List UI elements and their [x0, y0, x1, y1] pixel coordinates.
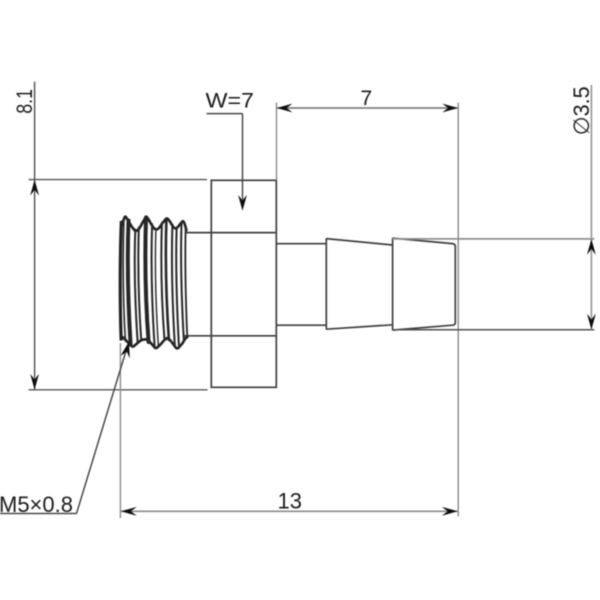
extension line bottom left: [29, 389, 208, 391]
svg-text:13: 13: [278, 488, 302, 513]
arrow W=7 down: [238, 195, 247, 211]
thread left edge: [120, 221, 121, 341]
extension line right x458: [457, 103, 459, 517]
barb stem: [276, 244, 326, 326]
arrow 7 right: [442, 104, 458, 113]
arrow 8.1 up: [30, 180, 39, 196]
svg-text:M5×0.8: M5×0.8: [0, 492, 73, 517]
dimension line dia 3.5 vertical: [590, 85, 592, 330]
arrow M5x0.8: [121, 342, 130, 359]
dimension line 13: [120, 510, 458, 512]
thread top crest: [121, 217, 186, 232]
leader W=7 underline: [207, 113, 243, 115]
barb 2: [393, 238, 456, 331]
svg-text:8.1: 8.1: [12, 89, 37, 114]
arrow dia3.5 up: [587, 239, 596, 255]
extension line barb bottom: [393, 329, 595, 331]
extension line 7 left (hex right): [276, 103, 278, 180]
thread bottom crest: [121, 336, 188, 348]
barb 1: [326, 238, 392, 329]
leader M5x0.8 line: [77, 346, 128, 514]
leader M5x0.8 underline: [0, 513, 77, 515]
extension line barb top: [393, 238, 595, 240]
extension line hex top left: [29, 179, 208, 181]
hex body: [183, 180, 276, 387]
svg-text:∅3.5: ∅3.5: [569, 86, 594, 135]
dimension line 8.1 vertical: [34, 82, 36, 390]
arrow 7 left: [277, 104, 293, 113]
leader W=7 vertical: [242, 114, 244, 205]
thread flank strokes: [123, 218, 187, 348]
arrow dia3.5 down: [587, 314, 596, 330]
extension line 13 left: [119, 343, 121, 518]
arrow 8.1 down: [30, 374, 39, 390]
arrow 13 right: [442, 507, 458, 516]
svg-text:W=7: W=7: [206, 90, 255, 113]
svg-text:7: 7: [361, 87, 373, 110]
arrow 13 left: [121, 507, 137, 516]
dimension line 7 horizontal: [277, 107, 459, 109]
